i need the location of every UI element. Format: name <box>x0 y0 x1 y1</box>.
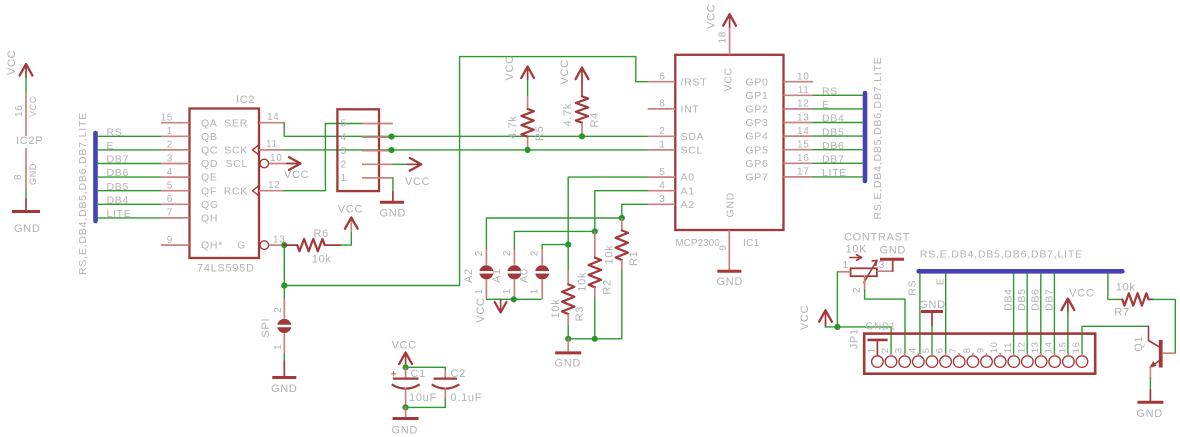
wire jumper pins 1 to VCC rail <box>486 298 541 300</box>
wire connector pin 1 to ground <box>392 178 394 192</box>
svg-text:6: 6 <box>167 194 173 205</box>
junction VCC rail <box>834 324 840 330</box>
wire jumper A0 pin2 to IC1 A0 and R3 <box>542 177 648 248</box>
wire RS from bus to JP1 pin 4 <box>919 274 921 354</box>
svg-text:17: 17 <box>797 167 810 178</box>
svg-text:10uF: 10uF <box>409 392 437 404</box>
svg-text:SCL: SCL <box>681 145 704 157</box>
svg-text:GND: GND <box>555 358 582 370</box>
svg-text:4: 4 <box>167 167 173 178</box>
junction R3 top <box>565 242 571 248</box>
junction R2 top <box>592 228 598 234</box>
trimmer R_contrast 10K <box>851 268 877 276</box>
svg-text:8: 8 <box>13 174 24 180</box>
svg-text:DB7: DB7 <box>1043 288 1055 311</box>
IC2 pin 13 inverted stub <box>260 241 269 250</box>
svg-text:4: 4 <box>907 347 918 353</box>
svg-text:LITE: LITE <box>107 208 132 220</box>
svg-text:10K: 10K <box>846 243 868 255</box>
svg-text:10k: 10k <box>577 272 589 292</box>
wire VCC to pot pin1 and JP1 pin 2 <box>825 323 827 327</box>
svg-text:SPI: SPI <box>260 318 272 338</box>
svg-text:11: 11 <box>266 139 278 150</box>
svg-text:10: 10 <box>797 72 810 83</box>
wire DB6 from bus to IC2 <box>98 176 162 178</box>
svg-text:15: 15 <box>797 140 810 151</box>
connector 5-pin header body <box>337 109 379 191</box>
svg-text:0.1uF: 0.1uF <box>451 392 483 404</box>
svg-text:14: 14 <box>267 112 280 123</box>
svg-text:4: 4 <box>659 181 665 192</box>
wire DB7 from bus to IC2 <box>98 163 162 165</box>
VCC arrow left of JP1 <box>819 310 832 322</box>
svg-text:E: E <box>934 277 946 285</box>
VCC arrow at connector pin 2 <box>410 158 422 171</box>
svg-text:VCC: VCC <box>1069 288 1094 300</box>
svg-text:DB4: DB4 <box>107 194 130 206</box>
svg-text:14: 14 <box>797 126 810 137</box>
junction connector pin 3 on SCL <box>388 147 394 153</box>
VCC arrow (down) at jumpers <box>495 302 507 313</box>
IC1 MCP23008 body <box>675 55 783 230</box>
svg-text:DB4: DB4 <box>822 113 845 125</box>
svg-text:VCC: VCC <box>6 50 18 75</box>
svg-text:G: G <box>237 240 246 252</box>
svg-text:IC2: IC2 <box>236 94 255 106</box>
svg-text:GND: GND <box>1136 408 1163 420</box>
resistor R6 10k <box>284 244 297 246</box>
svg-text:VCC: VCC <box>799 305 811 330</box>
wire E from IC1 GP2 to bus <box>813 108 863 110</box>
svg-text:SCK: SCK <box>224 145 248 157</box>
svg-text:9: 9 <box>718 245 729 251</box>
svg-text:13: 13 <box>797 112 810 123</box>
junction R2 bottom <box>592 336 598 342</box>
power symbol IC2P GND pin 8 <box>25 148 27 190</box>
svg-text:DB7: DB7 <box>822 154 845 166</box>
junction R5 on SCL <box>525 147 531 153</box>
svg-text:GND: GND <box>28 163 38 185</box>
svg-text:DB5: DB5 <box>107 181 130 193</box>
svg-text:14: 14 <box>1044 341 1055 353</box>
svg-text:11: 11 <box>798 85 810 96</box>
solder jumper A0 <box>535 265 549 279</box>
junction C1 bottom <box>403 404 409 410</box>
svg-text:R5: R5 <box>534 126 546 141</box>
IC2 74LS595D shift register body <box>190 109 260 259</box>
svg-text:2: 2 <box>530 250 541 256</box>
wire RS from IC1 GP1 to bus <box>813 94 863 96</box>
svg-text:1: 1 <box>474 288 485 294</box>
bus IC1 side (vertical) <box>863 93 868 181</box>
wire C1 bottom to ground <box>405 407 407 418</box>
svg-text:QC: QC <box>201 145 218 157</box>
junction R1 top <box>619 215 625 221</box>
svg-text:VCC: VCC <box>723 67 735 91</box>
wire SPI to ground <box>283 354 285 361</box>
wire DB5 from bus to IC2 <box>98 190 162 192</box>
svg-text:4.7k: 4.7k <box>507 115 519 139</box>
wire Q1 emitter to ground <box>1149 378 1151 390</box>
svg-text:GP3: GP3 <box>745 117 768 129</box>
wire JP1 pin16 to Q1 collector <box>1082 326 1149 353</box>
svg-text:2: 2 <box>273 307 284 313</box>
svg-text:RS,E,DB4,DB5,DB6,DB7,LITE: RS,E,DB4,DB5,DB6,DB7,LITE <box>77 112 89 275</box>
wire DB4 from IC1 GP3 to bus <box>813 122 863 124</box>
svg-text:10: 10 <box>989 341 1000 353</box>
svg-text:RS: RS <box>107 126 123 138</box>
svg-text:5: 5 <box>167 181 173 192</box>
wire DB5 from IC1 GP4 to bus <box>813 135 863 137</box>
svg-text:QE: QE <box>201 172 218 184</box>
VCC arrow at IC2 pin 10 <box>289 157 301 170</box>
svg-text:LITE: LITE <box>822 167 847 179</box>
svg-text:C2: C2 <box>451 368 466 380</box>
svg-text:5: 5 <box>341 118 348 130</box>
svg-text:5: 5 <box>659 167 665 178</box>
wire jumper A2 pin2 to IC1 A2 and R1 <box>486 204 647 248</box>
svg-text:VCC: VCC <box>504 55 516 80</box>
resistor R1 10k <box>621 218 623 230</box>
svg-text:1: 1 <box>502 288 513 294</box>
wire connector pin 2 to VCC <box>393 163 409 165</box>
wire R7 to Q1 base <box>1153 299 1175 352</box>
svg-text:DB5: DB5 <box>822 126 845 138</box>
resistor R3 10k <box>567 245 569 271</box>
svg-text:7: 7 <box>948 347 959 353</box>
svg-text:DB6: DB6 <box>107 167 130 179</box>
svg-text:QF: QF <box>201 185 217 197</box>
VCC arrow above R5 <box>521 67 534 79</box>
svg-text:SER: SER <box>224 117 248 129</box>
svg-text:15: 15 <box>160 113 173 124</box>
wire C1 to C2 top <box>406 367 446 371</box>
svg-text:3: 3 <box>659 194 665 205</box>
svg-text:GP0: GP0 <box>745 76 768 88</box>
svg-text:8: 8 <box>962 347 973 353</box>
IC2 pin 10 inverted stub <box>260 159 269 168</box>
IC1 left pin stubs and numbers <box>648 81 676 83</box>
svg-text:VCC: VCC <box>284 169 309 181</box>
svg-text:VCC: VCC <box>28 96 38 117</box>
resistor R4 4.7k <box>581 81 583 96</box>
wire node G/RST net from IC2 pin13 <box>284 57 647 286</box>
VCC arrow above R6 <box>350 219 352 232</box>
wire pulldown rail to ground <box>567 339 569 353</box>
svg-text:IC2P: IC2P <box>16 135 43 147</box>
svg-text:RS,E,DB4,DB5,DB6,DB7,LITE: RS,E,DB4,DB5,DB6,DB7,LITE <box>872 57 884 220</box>
pot wiper pin 2 stub <box>864 276 866 290</box>
bus RS,E,DB4,DB5,DB6,DB7,LITE (vertical) <box>93 133 98 221</box>
wire junction to SPI jumper <box>283 286 285 300</box>
svg-text:1: 1 <box>659 140 665 151</box>
svg-text:QH*: QH* <box>201 240 223 252</box>
svg-text:16: 16 <box>797 153 810 164</box>
svg-text:5: 5 <box>921 347 932 353</box>
ground under pulldowns <box>555 351 581 354</box>
IC2 pin 11 stub with clock mark <box>253 144 260 155</box>
solder jumper SPI <box>283 299 285 319</box>
VCC arrow at JP1 pin 15 <box>1062 299 1075 311</box>
svg-text:VCC: VCC <box>706 4 718 29</box>
svg-text:3: 3 <box>879 259 886 271</box>
capacitor C1 10uF polarized <box>405 367 407 378</box>
svg-text:9: 9 <box>167 235 173 246</box>
svg-text:JP1: JP1 <box>849 328 861 349</box>
svg-text:3: 3 <box>894 347 905 353</box>
svg-text:DB6: DB6 <box>1030 288 1042 311</box>
svg-text:A1: A1 <box>491 268 503 283</box>
svg-text:DB5: DB5 <box>1016 288 1028 311</box>
svg-text:2: 2 <box>502 250 513 256</box>
IC2 pin 14 stub <box>259 122 284 124</box>
svg-text:R7: R7 <box>1114 306 1129 318</box>
VCC arrow above C1 <box>399 353 412 365</box>
svg-text:7: 7 <box>167 208 173 219</box>
svg-text:GND: GND <box>880 245 907 257</box>
wire DB7 from bus to JP1 pin 14 <box>1053 274 1055 354</box>
svg-text:A2: A2 <box>681 199 695 211</box>
bus LCD side (horizontal) <box>919 269 1123 274</box>
svg-text:16: 16 <box>1071 341 1082 353</box>
ground under Q1 <box>1137 401 1163 404</box>
wire ground to JP1 pin 5 <box>931 326 933 353</box>
IC2 pin 12 stub with clock mark <box>253 185 260 196</box>
solder jumper A1 <box>507 265 521 279</box>
svg-text:GP5: GP5 <box>745 144 768 156</box>
svg-text:VCC: VCC <box>475 297 487 322</box>
svg-text:SCL: SCL <box>225 158 248 170</box>
svg-text:E: E <box>822 99 830 111</box>
svg-text:GND: GND <box>919 299 946 311</box>
svg-text:4: 4 <box>341 131 348 143</box>
svg-text:13: 13 <box>1030 341 1041 353</box>
svg-text:R2: R2 <box>602 279 614 294</box>
wire jumper A1 pin2 to IC1 A1 and R2 <box>514 191 647 249</box>
svg-text:E: E <box>107 140 115 152</box>
svg-text:15: 15 <box>1057 341 1068 353</box>
wire DB7 from IC1 GP6 to bus <box>813 162 863 164</box>
svg-text:GP4: GP4 <box>745 131 768 143</box>
svg-text:A1: A1 <box>681 185 695 197</box>
junction on jumper VCC rail <box>511 296 517 302</box>
svg-text:GND: GND <box>717 276 744 288</box>
svg-text:+: + <box>391 369 398 381</box>
svg-text:IC1: IC1 <box>743 238 760 249</box>
svg-text:VCC: VCC <box>559 59 571 84</box>
svg-text:GP6: GP6 <box>745 158 768 170</box>
wire pot pin 1 down to VCC rail <box>836 272 838 327</box>
svg-text:10: 10 <box>270 153 283 164</box>
svg-text:GND: GND <box>271 383 298 395</box>
svg-text:Q1: Q1 <box>1133 336 1145 352</box>
power symbol IC2P VCC pin 16 <box>20 64 33 76</box>
wire C2 bottom to C1 bottom <box>406 400 446 407</box>
svg-text:12: 12 <box>1016 341 1027 353</box>
svg-text:CONTRAST: CONTRAST <box>844 231 910 243</box>
svg-text:GND: GND <box>380 208 407 220</box>
svg-text:R3: R3 <box>574 306 586 321</box>
svg-text:RS: RS <box>907 280 919 296</box>
svg-text:SDA: SDA <box>681 131 705 143</box>
svg-text:MCP2300: MCP2300 <box>676 238 721 249</box>
connector JP1 16-pin LCD header body <box>864 334 1095 374</box>
svg-text:18: 18 <box>718 31 729 44</box>
svg-text:QD: QD <box>201 158 218 170</box>
svg-text:VCC: VCC <box>405 176 430 188</box>
svg-text:8: 8 <box>659 99 665 110</box>
svg-text:RS: RS <box>822 86 838 98</box>
solder jumper A2 <box>479 265 493 279</box>
IC1 pin 18 to VCC <box>723 14 736 26</box>
wire RS from bus to IC2 <box>98 135 162 137</box>
wire LITE from bus to IC2 <box>98 217 162 219</box>
ground under connector pin 1 <box>380 201 404 204</box>
junction R4 on SDA <box>579 133 585 139</box>
svg-text:VCC: VCC <box>338 204 363 216</box>
junction at IC2 pin 13 <box>281 242 287 248</box>
ground symbol GND1 inside JP1 at pin 1 <box>868 339 888 342</box>
wire DB4 from bus to JP1 pin 11 <box>1013 274 1015 354</box>
svg-text:A0: A0 <box>681 172 695 184</box>
svg-text:R1: R1 <box>628 251 640 266</box>
svg-text:GND1: GND1 <box>866 321 897 332</box>
svg-text:2: 2 <box>851 287 863 294</box>
svg-text:C1: C1 <box>411 368 426 380</box>
resistor R5 4.7k <box>527 80 529 96</box>
svg-text:9: 9 <box>976 347 987 353</box>
svg-text:QG: QG <box>201 199 219 211</box>
svg-text:6: 6 <box>935 347 946 353</box>
svg-text:2: 2 <box>167 140 173 151</box>
svg-text:INT: INT <box>681 104 700 116</box>
svg-text:VCC: VCC <box>392 340 417 352</box>
svg-text:11: 11 <box>1003 342 1014 353</box>
svg-text:10k: 10k <box>550 299 562 319</box>
svg-text:QA: QA <box>201 117 218 129</box>
ground <box>12 210 40 213</box>
svg-text:4.7k: 4.7k <box>562 103 574 127</box>
svg-text:1: 1 <box>843 259 850 271</box>
ground under C1 <box>393 417 419 420</box>
svg-text:QH: QH <box>201 213 218 225</box>
IC2 left pin stubs and numbers <box>161 122 190 124</box>
wire LITE from IC1 GP7 to bus <box>813 176 863 178</box>
svg-text:GND: GND <box>14 223 41 235</box>
svg-text:GND: GND <box>725 192 737 217</box>
svg-text:1: 1 <box>167 126 173 137</box>
svg-text:2: 2 <box>474 250 485 256</box>
wire LITE from bus to R7 <box>1108 274 1122 300</box>
svg-text:GP1: GP1 <box>745 90 768 102</box>
IC1 right pin stubs and numbers <box>784 81 814 83</box>
svg-text:6: 6 <box>659 72 665 83</box>
svg-text:10k: 10k <box>1116 282 1136 294</box>
svg-text:GP7: GP7 <box>745 172 768 184</box>
svg-text:16: 16 <box>14 104 25 117</box>
svg-text:3: 3 <box>341 145 348 157</box>
wire E from bus to JP1 pin 6 <box>945 274 947 354</box>
junction at SPI jumper branch <box>281 282 287 288</box>
svg-text:DB7: DB7 <box>107 154 130 166</box>
junction R3 bottom <box>565 336 571 342</box>
JP1 pin circles and numbers <box>872 356 884 368</box>
svg-text:12: 12 <box>268 180 281 191</box>
svg-text:GP2: GP2 <box>745 104 768 116</box>
svg-text:RS,E,DB4,DB5,DB6,DB7,LITE: RS,E,DB4,DB5,DB6,DB7,LITE <box>920 249 1083 261</box>
wire E from bus to IC2 <box>98 149 162 151</box>
svg-text:R6: R6 <box>314 228 329 240</box>
pot pin 1 stub <box>837 271 850 273</box>
IC1 pin 9 to ground <box>728 230 730 271</box>
svg-text:2: 2 <box>880 347 891 353</box>
wire DB6 from bus to JP1 pin 13 <box>1040 274 1042 354</box>
svg-text:DB4: DB4 <box>1003 288 1015 311</box>
resistor R7 10k <box>1122 293 1148 305</box>
wire DB4 from bus to IC2 <box>98 203 162 205</box>
wire VCC to JP1 pin 15 <box>1067 312 1069 353</box>
svg-text:1: 1 <box>530 288 541 294</box>
svg-text:A2: A2 <box>463 268 475 283</box>
svg-text:1: 1 <box>341 172 348 184</box>
transistor Q1 NPN <box>1148 326 1150 340</box>
wire SDA net: IC2 pin14 down and right to IC1 pin 2 <box>284 123 648 137</box>
svg-text:1: 1 <box>273 344 284 350</box>
resistor R2 10k <box>594 231 596 257</box>
svg-text:1: 1 <box>866 347 877 353</box>
wire SCL net: IC2 pin11 right to IC1 pin 1 <box>284 149 648 151</box>
ground under SPI <box>272 376 296 379</box>
svg-text:RCK: RCK <box>224 185 248 197</box>
VCC arrow above R4 <box>576 68 589 80</box>
svg-text:2: 2 <box>341 159 348 171</box>
svg-text:/RST: /RST <box>681 76 708 88</box>
wire pot wiper to JP1 pin 3 <box>865 290 905 353</box>
connector pin stubs and numbers <box>362 123 393 125</box>
svg-text:3: 3 <box>167 153 173 164</box>
svg-text:GND: GND <box>392 425 419 437</box>
ground above pot pin 3 <box>880 258 904 261</box>
svg-text:10k: 10k <box>312 253 332 265</box>
svg-text:10k: 10k <box>604 245 616 265</box>
svg-text:A0: A0 <box>519 268 531 283</box>
svg-text:R4: R4 <box>589 112 601 127</box>
capacitor C2 0.1uF <box>444 371 446 379</box>
wire IC2 pin12 to connector pin 5 <box>284 124 362 191</box>
wire VCC to C1 <box>405 366 407 367</box>
svg-text:QB: QB <box>201 131 218 143</box>
junction connector pin 4 on SDA <box>388 134 394 140</box>
svg-text:12: 12 <box>797 99 810 110</box>
svg-text:DB6: DB6 <box>822 140 845 152</box>
svg-text:2: 2 <box>659 126 665 137</box>
junction C1 top <box>403 364 409 370</box>
wire DB6 from IC1 GP5 to bus <box>813 149 863 151</box>
pot pin 3 stub to ground <box>877 270 893 272</box>
svg-text:74LS595D: 74LS595D <box>197 263 255 275</box>
wire R6 to VCC <box>341 232 351 246</box>
wire DB5 from bus to JP1 pin 12 <box>1026 274 1028 354</box>
